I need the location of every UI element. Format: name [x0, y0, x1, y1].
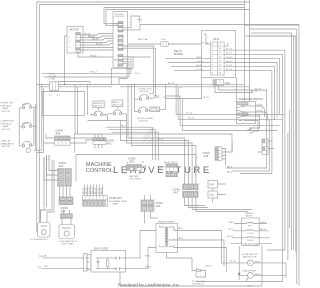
wires into right mid nested corners: [226, 109, 272, 174]
svg-text:WH-9: WH-9: [255, 261, 261, 263]
svg-text:MOTOR: MOTOR: [70, 29, 79, 32]
ps right stubs: [256, 106, 265, 117]
svg-text:PL-2: PL-2: [127, 69, 132, 71]
svg-text:CH-16: CH-16: [197, 61, 204, 63]
svg-text:FAULT: FAULT: [113, 101, 120, 104]
wire bus to board: [75, 85, 77, 135]
svg-text:BK-3: BK-3: [135, 73, 141, 75]
svg-text:GY-31: GY-31: [257, 104, 264, 106]
svg-text:SW-TCH: SW-TCH: [2, 129, 11, 131]
transformer windings: [165, 228, 166, 247]
svg-text:WH-3: WH-3: [154, 96, 160, 98]
wires AA14 left: [165, 57, 211, 59]
motor control U1 box: [113, 12, 128, 67]
svg-text:PL-20: PL-20: [188, 118, 195, 120]
wire run door to right 2: [178, 87, 282, 120]
frame right edge: [245, 25, 299, 286]
svg-text:BK-14: BK-14: [168, 83, 175, 85]
wire run to AA7 p3: [127, 121, 193, 181]
svg-text:BK-8: BK-8: [248, 286, 254, 288]
drain pump M3: [248, 273, 254, 279]
svg-text:PL-11: PL-11: [226, 69, 232, 71]
main bus y84.5: [37, 84, 166, 86]
relay board U2 box: [202, 30, 236, 77]
svg-text:(+): (+): [138, 173, 141, 175]
svg-text:PL-13: PL-13: [251, 91, 258, 93]
svg-text:AA2: AA2: [59, 165, 64, 168]
conn AA5 board block: [59, 197, 73, 205]
svg-text:PL-7B: PL-7B: [197, 69, 204, 71]
inline power conn P1: [84, 254, 88, 272]
water valve bottom wire: [231, 242, 272, 244]
wire motor left drop: [65, 36, 68, 85]
water valve coil hot: [247, 222, 253, 223]
service switch S1 label box: [93, 101, 104, 108]
connector DD1 strip: [262, 139, 268, 155]
svg-text:PS-1: PS-1: [257, 114, 263, 116]
svg-text:BLDW: BLDW: [247, 240, 254, 242]
svg-text:BD-27: BD-27: [172, 162, 179, 164]
svg-text:PL-13: PL-13: [226, 49, 233, 51]
wires DD1: [258, 141, 274, 152]
svg-text:WH-1: WH-1: [23, 104, 29, 106]
bottom long wire: [120, 245, 262, 286]
svg-text:BN-26: BN-26: [101, 187, 103, 194]
svg-text:PL-16: PL-16: [230, 260, 237, 262]
fault switch S2 label box: [112, 100, 123, 107]
svg-text:BK-20: BK-20: [83, 187, 85, 194]
fault switch S2: [116, 107, 118, 109]
node dot A: [64, 84, 65, 85]
svg-text:YL-25: YL-25: [98, 187, 100, 194]
wire left riser motor group: [238, 246, 240, 280]
conn AA7 block: [183, 184, 199, 198]
wire mc bottom y86.8: [40, 87, 182, 88]
svg-text:WH-10: WH-10: [255, 274, 263, 276]
border frame inner: [40, 5, 245, 227]
wire run to AA7 p2: [121, 121, 189, 181]
svg-text:WH: WH: [44, 266, 48, 268]
svg-text:SW-TCH: SW-TCH: [140, 91, 149, 93]
junction diamond: [238, 272, 241, 276]
svg-text:AA5: AA5: [61, 210, 66, 213]
svg-text:DISPLACE-: DISPLACE-: [1, 122, 13, 125]
svg-text:BD-3: BD-3: [227, 171, 233, 173]
svg-text:AA7: AA7: [174, 192, 179, 195]
svg-text:RD-2: RD-2: [178, 238, 184, 240]
watermark leaf: [142, 127, 157, 144]
svg-text:PL-19: PL-19: [186, 113, 193, 115]
wires AA2 to AA5: [60, 186, 71, 197]
wire label flecks: [44, 55, 233, 268]
svg-text:N: N: [39, 266, 41, 270]
conn AA3 pin stubs: [85, 185, 103, 196]
svg-text:PRESSURE SWITCH: PRESSURE SWITCH: [239, 98, 264, 101]
svg-text:PL-17: PL-17: [228, 229, 235, 231]
svg-text:AA1: AA1: [107, 143, 112, 146]
conn EE1 block: [126, 165, 142, 171]
wire run to AA7 p1: [128, 85, 185, 181]
svg-text:SW-TCH: SW-TCH: [2, 111, 11, 113]
svg-text:SOLENO-D: SOLENO-D: [192, 283, 204, 285]
svg-text:GN-18: GN-18: [226, 57, 233, 59]
door closed switch S4: [138, 110, 140, 112]
wire left chain: [18, 108, 20, 146]
door lock switch S3: [139, 98, 141, 100]
wires J2 drop to door area: [123, 46, 156, 96]
connector strip JP4: [118, 55, 123, 67]
wires right of door area: [149, 87, 181, 96]
svg-text:RD-1: RD-1: [178, 228, 184, 230]
svg-text:BK-9: BK-9: [197, 65, 203, 67]
svg-text:WH-4: WH-4: [23, 123, 29, 125]
ps contact 3: [237, 116, 243, 118]
svg-text:AA14: AA14: [213, 38, 220, 41]
water valve box: [242, 218, 260, 245]
water valve coil cold: [247, 230, 253, 231]
svg-text:GY-30: GY-30: [257, 110, 264, 112]
wire run to AA7 p4: [131, 123, 196, 181]
svg-text:WH-N: WH-N: [145, 267, 151, 269]
right verticals bundle: [290, 33, 294, 250]
wire inline conn right: [59, 82, 91, 85]
svg-text:PL-10: PL-10: [227, 236, 234, 238]
wire relay left edge down: [183, 78, 202, 99]
svg-text:GN-22: GN-22: [89, 187, 91, 194]
conn AA3 block: [83, 196, 108, 206]
ps contact 1: [237, 106, 243, 108]
wires service fault drop: [88, 85, 127, 121]
service switch S1: [97, 108, 99, 110]
svg-text:WH-23: WH-23: [92, 186, 94, 194]
wires AA2 left: [44, 155, 58, 180]
wire band y84.4: [166, 83, 245, 85]
svg-text:WH-L: WH-L: [145, 256, 151, 258]
svg-text:BL-15: BL-15: [226, 61, 233, 63]
svg-text:SW-TCH: SW-TCH: [139, 121, 148, 123]
conn AA8 block: [215, 147, 222, 161]
connector strip RS2: [118, 22, 123, 33]
svg-text:PL-12: PL-12: [202, 42, 209, 44]
wire run door to right 4: [166, 99, 278, 131]
svg-text:DRA-N PUMP: DRA-N PUMP: [243, 270, 257, 273]
door closed aux label box: [150, 107, 160, 112]
ground symbol GND1: [137, 16, 142, 22]
svg-text:AA4: AA4: [56, 133, 61, 136]
GG1 inline conn: [161, 42, 169, 47]
conn AA5 cable block: [61, 214, 73, 219]
door unlock motor M2: [248, 260, 254, 266]
svg-text:CAL OPTIONAL: CAL OPTIONAL: [243, 242, 260, 245]
ps hatched label 2: [238, 113, 249, 115]
svg-text:CONN AA3: CONN AA3: [109, 197, 122, 200]
svg-text:SW-TCH: SW-TCH: [113, 105, 122, 107]
svg-text:WH-11: WH-11: [206, 266, 213, 268]
svg-text:PL-15: PL-15: [203, 97, 210, 99]
connector AA14 block: [211, 42, 225, 75]
wire AA14 top left stub: [204, 34, 211, 44]
svg-text:BN-8: BN-8: [197, 57, 203, 59]
svg-text:L1: L1: [40, 254, 44, 258]
transformer pins: [158, 227, 178, 248]
wires AA6: [145, 195, 159, 224]
EMI inductor L1: [114, 258, 116, 269]
wires AA7: [185, 180, 196, 212]
svg-text:Rendered by LeadVenture, Inc.: Rendered by LeadVenture, Inc.: [118, 283, 180, 288]
EMI out wires: [120, 258, 126, 269]
wire run door to right 3: [166, 96, 280, 125]
conn AA2 block: [58, 169, 72, 187]
svg-text:SW-TCH: SW-TCH: [94, 106, 103, 108]
svg-text:RD-21: RD-21: [86, 187, 88, 194]
ps contact 2: [237, 111, 243, 113]
svg-text:VALVE: VALVE: [245, 214, 252, 217]
svg-text:(-): (-): [125, 173, 127, 175]
svg-text:BU-24: BU-24: [95, 187, 97, 194]
motor connector pin strip: [76, 33, 81, 53]
inline conn J1J2 box: [50, 82, 59, 91]
wire run door to right 1: [176, 85, 285, 115]
wires bottom right risers: [246, 240, 297, 284]
wire pump bottom loop: [196, 263, 286, 282]
wire left bundle: [36, 104, 49, 220]
coin sensor 2 body: [59, 225, 75, 239]
conn AA1 block: [93, 138, 106, 145]
svg-text:GG1: GG1: [161, 39, 166, 41]
wire right chain: [33, 107, 35, 145]
EMI cap C1: [96, 258, 100, 269]
svg-text:HEAT: HEAT: [3, 125, 9, 128]
wires GG2 down: [215, 86, 267, 110]
svg-text:PL-21: PL-21: [226, 65, 233, 67]
svg-text:HOT: HOT: [248, 226, 253, 228]
wires RS2 up loop to right: [104, 8, 245, 24]
long verticals from top: [245, 25, 250, 102]
wire loop below J1J2: [42, 91, 84, 116]
svg-text:DISPLACE-: DISPLACE-: [1, 104, 13, 107]
transformer T1 box: [156, 224, 178, 253]
water valve coil body: [247, 237, 253, 238]
svg-text:COLD: COLD: [247, 233, 253, 235]
ps gnd arrow: [249, 128, 254, 133]
wires motor to motor control: [80, 34, 118, 36]
box BB1: [208, 191, 218, 198]
svg-text:CARD: CARD: [112, 203, 119, 206]
svg-text:BK-41: BK-41: [260, 229, 267, 231]
upper tub switch S7: [22, 107, 24, 109]
wire top right step: [249, 29, 296, 240]
svg-text:OPT-ONAL): OPT-ONAL): [129, 178, 141, 181]
svg-text:BAL-CSA: BAL-CSA: [138, 38, 148, 41]
door lock solenoid L2: [192, 269, 206, 277]
border frame outer: [37, 0, 250, 232]
EMI resistor R1: [106, 260, 109, 267]
wire runs to BB3: [106, 127, 158, 160]
svg-text:CONN: CONN: [49, 78, 56, 80]
svg-text:MAG MOTOR: MAG MOTOR: [243, 256, 257, 259]
svg-text:UPPER TUB: UPPER TUB: [1, 103, 14, 105]
inertia switch circle: [26, 148, 30, 152]
box BB4: [208, 181, 218, 189]
wire motor bottom loop: [78, 52, 151, 57]
wires AA8 right: [222, 142, 232, 166]
wires coin sensors up: [41, 160, 72, 222]
conn AA6 block: [141, 200, 154, 211]
svg-text:RD-43: RD-43: [92, 39, 99, 41]
motor M1 box: [67, 27, 83, 54]
svg-text:BN-7: BN-7: [229, 222, 235, 224]
svg-text:WH-14: WH-14: [90, 72, 98, 74]
connector GG2: [213, 80, 224, 86]
svg-text:BB3): BB3): [159, 169, 164, 171]
svg-text:WH-45: WH-45: [90, 55, 98, 57]
svg-text:AA6: AA6: [156, 205, 161, 208]
svg-text:CO-N SENSOR #1: CO-N SENSOR #1: [30, 239, 49, 241]
svg-text:EE1: EE1: [130, 161, 135, 164]
ps hatched label 1: [238, 103, 249, 105]
pressure switch box: [237, 102, 256, 124]
connector strip J2: [118, 35, 123, 51]
svg-text:GY-26: GY-26: [157, 139, 164, 141]
svg-text:UNBALANCE: UNBALANCE: [1, 142, 15, 145]
svg-text:EM- F-LTER: EM- F-LTER: [94, 247, 108, 250]
conn EE1 stub: [128, 161, 146, 170]
svg-text:GN-73: GN-73: [260, 222, 267, 224]
ps contact 4: [239, 120, 256, 122]
wires transformer right: [178, 231, 227, 273]
wires JP4 nested loops: [111, 57, 133, 85]
svg-text:BOARD: BOARD: [174, 53, 183, 56]
svg-text:LOWER TUB: LOWER TUB: [1, 121, 15, 123]
conn BB3 cable block: [166, 173, 178, 177]
svg-text:CONTROL: CONTROL: [114, 16, 125, 18]
svg-text:BU-44: BU-44: [96, 44, 103, 46]
wires door area: [131, 85, 134, 123]
svg-text:BD-2: BD-2: [227, 166, 233, 168]
svg-text:-NERT-AL: -NERT-AL: [1, 140, 12, 143]
svg-text:(OPT-ONAL): (OPT-ONAL): [62, 243, 75, 246]
svg-text:SW-TCH: SW-TCH: [2, 146, 11, 148]
svg-text:CLOSED: CLOSED: [151, 110, 160, 112]
coin sensor 1 body: [38, 223, 51, 238]
inertia switch S9: [22, 145, 24, 147]
wires AA14 right nested: [224, 43, 228, 47]
svg-text:RD-25: RD-25: [164, 162, 171, 164]
wire rect loop around board: [75, 134, 232, 153]
machine control board U3 box: [76, 155, 196, 182]
svg-text:CONTROL.: CONTROL.: [86, 168, 115, 174]
wires BB boxes: [213, 184, 226, 203]
svg-text:HEAT: HEAT: [3, 107, 9, 110]
conn BB3 block: [166, 164, 178, 172]
svg-text:PL-17: PL-17: [226, 53, 233, 55]
svg-text:BK-2: BK-2: [121, 126, 127, 128]
wire mc right y24.5: [123, 25, 299, 30]
wires switches to frame: [34, 85, 44, 153]
lower tub switch S8: [22, 126, 24, 128]
wire aa4 left: [44, 134, 55, 143]
wire mc to GG1 relay: [128, 43, 202, 45]
conn AA4 block: [55, 136, 94, 145]
wire relay right edge down: [236, 78, 238, 102]
conn AA3 pin labels: [83, 186, 103, 194]
svg-text:TRANSFORMER: TRANSFORMER: [158, 221, 175, 224]
svg-text:M: M: [249, 263, 251, 265]
EMI filter box: [91, 251, 126, 273]
wire band y86.8: [181, 86, 249, 88]
svg-text:AA8: AA8: [204, 155, 209, 158]
wires AA1 up: [95, 134, 102, 148]
